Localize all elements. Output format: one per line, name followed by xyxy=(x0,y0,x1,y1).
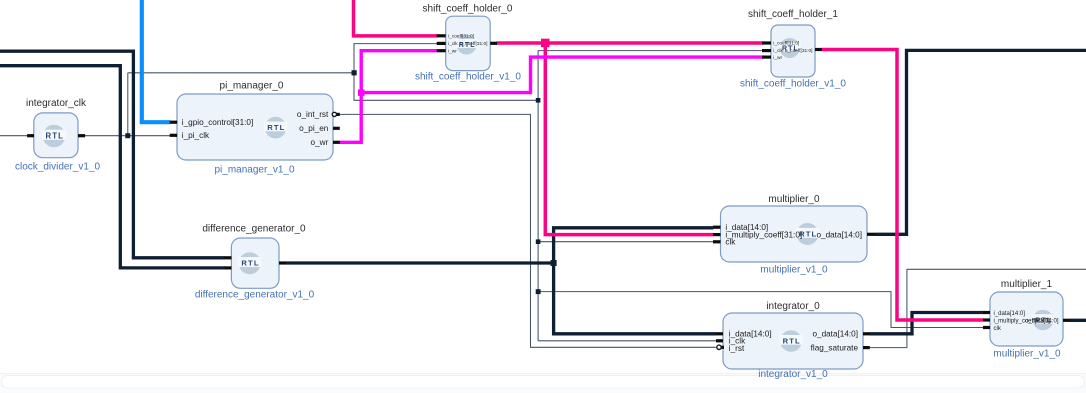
wire net_clk: clock_divider output to pi_manager i_pi_clk xyxy=(85,135,170,137)
svg-text:i_coeff[31:0]: i_coeff[31:0] xyxy=(448,34,474,40)
block shift_coeff_holder_1 xyxy=(740,9,846,89)
wire net_coeff branch down to multiplier_0 i_multiply_coeff xyxy=(545,43,713,235)
svg-text:clk: clk xyxy=(994,326,1002,332)
port text pi_manager i_gpio_control[31:0] xyxy=(182,118,253,127)
port text multiplier_1 o_data[14:0] xyxy=(1025,319,1059,325)
svg-text:shift_coeff_holder_v1_0: shift_coeff_holder_v1_0 xyxy=(740,78,846,89)
wire net_clk branch to integrator_0 i_clk xyxy=(538,340,716,342)
pin shift_coeff_holder_0 i_wr stub xyxy=(437,49,446,52)
wire net_integ_out: integrator_0 o_data to multiplier_1 i_data xyxy=(870,313,984,334)
wire net_wr branch to shift_coeff_holder_1 i_wr xyxy=(361,57,763,93)
wire net_wr: magenta o_wr to shift_coeff_holder_0 i_wr xyxy=(339,51,437,143)
RTL logo shift_coeff_holder_1 xyxy=(779,38,801,58)
pin multiplier_1 i_data stub xyxy=(983,311,990,314)
svg-text:i_coeff[31:0]: i_coeff[31:0] xyxy=(773,41,799,47)
pin multiplier_1 clk stub xyxy=(983,326,990,329)
pin integrator i_data stub xyxy=(716,332,723,335)
RTL logo multiplier_0 xyxy=(796,223,820,245)
svg-text:shift_coeff_holder_1: shift_coeff_holder_1 xyxy=(748,9,838,20)
port text multiplier_0 i_data[14:0] xyxy=(725,223,768,232)
pin integrator_clk output stub xyxy=(78,134,85,137)
wire net_clk horizontal rail y=72.8 xyxy=(128,72,354,74)
svg-text:clk: clk xyxy=(725,238,736,247)
junction net_diff_out xyxy=(551,260,557,266)
svg-text:i_wr: i_wr xyxy=(448,48,457,54)
port text pi_manager i_pi_clk xyxy=(182,131,210,140)
port text multiplier_0 clk xyxy=(725,238,736,247)
port text shift_coeff_holder_0 i_wr xyxy=(448,48,457,54)
block multiplier_1 xyxy=(990,279,1063,360)
port text shift_coeff_holder_0 o_coeff[31:0] xyxy=(460,41,488,47)
wire net_diff_out branch down to integrator_0 i_data xyxy=(554,263,717,334)
pin pi_manager o_int_rst circle marker xyxy=(332,112,340,116)
pin shift_coeff_holder_1 i_wr stub xyxy=(762,56,771,59)
pin integrator flag_saturate stub xyxy=(863,346,870,349)
svg-text:RTL: RTL xyxy=(267,123,285,132)
port text multiplier_1 i_multiply_coeff[31:0] xyxy=(994,319,1051,325)
wire net_clk vertical trunk x=538.1 xyxy=(537,100,539,340)
port text multiplier_0 o_data[14:0] xyxy=(816,230,862,239)
svg-text:i_pi_clk: i_pi_clk xyxy=(182,131,210,140)
pin integrator i_rst circle marker xyxy=(717,345,724,349)
port text integrator i_data[14:0] xyxy=(729,330,772,339)
svg-text:o_int_rst: o_int_rst xyxy=(297,110,329,119)
port text shift_coeff_holder_1 i_coeff[31:0] xyxy=(773,41,799,47)
svg-text:i_data[14:0]: i_data[14:0] xyxy=(994,311,1026,317)
svg-text:RTL: RTL xyxy=(45,132,63,141)
svg-text:i_rst: i_rst xyxy=(729,344,745,353)
svg-text:shift_coeff_holder_0: shift_coeff_holder_0 xyxy=(423,3,513,14)
block difference_generator_0 xyxy=(195,224,315,301)
wire net_gpio: blue wire from top edge to pi_manager i_gpio_control xyxy=(142,0,170,122)
port text multiplier_1 clk xyxy=(994,326,1002,332)
svg-text:integrator_v1_0: integrator_v1_0 xyxy=(758,369,828,380)
svg-text:multiplier_0: multiplier_0 xyxy=(768,194,820,205)
port text integrator i_clk xyxy=(729,337,746,346)
block multiplier_0 xyxy=(721,194,868,276)
junction net_coeff (pink) xyxy=(541,39,550,48)
svg-text:multiplier_v1_0: multiplier_v1_0 xyxy=(760,265,828,276)
junction net_clk at clock output xyxy=(125,133,130,138)
pin shift_coeff_holder_0 i_clk stub xyxy=(437,42,446,45)
wire net_clk_root: clock divider input from left edge xyxy=(0,135,27,137)
wire net_diff_out: difference_generator output trunk xyxy=(286,261,554,264)
pin multiplier_0 o_data stub xyxy=(867,233,876,236)
port text shift_coeff_holder_1 i_clk xyxy=(773,48,783,54)
pin shift_coeff_holder_1 i_coeff stub xyxy=(762,41,771,44)
wire net_mult1_out: multiplier_1 o_data to right edge xyxy=(1070,319,1086,322)
wire net_coeff1: shift_coeff_holder_1 o_coeff to multiplier_1 i_multiply_coeff xyxy=(822,50,984,321)
wire net_mult0_out: multiplier_0 o_data up and to right edge xyxy=(876,50,1086,234)
svg-text:o_data[14:0]: o_data[14:0] xyxy=(816,230,862,239)
wire net_clk branch up to shift_coeff_holder_1 i_clk xyxy=(538,51,764,101)
pin multiplier_0 clk stub xyxy=(713,240,721,243)
port text integrator flag_saturate xyxy=(811,344,859,353)
port text pi_manager o_int_rst xyxy=(297,110,329,119)
port text shift_coeff_holder_1 i_wr xyxy=(773,55,782,61)
wire net_B: left edge to difference_generator port2 (thick dark) xyxy=(0,66,225,268)
port text multiplier_1 i_data[14:0] xyxy=(994,311,1026,317)
svg-text:o_wr: o_wr xyxy=(311,138,329,147)
scrollbar track bottom xyxy=(0,374,1086,393)
pin pi_manager o_wr stub xyxy=(333,141,340,144)
port text multiplier_0 i_multiply_coeff[31:0] xyxy=(725,230,802,239)
junction net_clk rail y=72.8 xyxy=(352,70,357,75)
block pi_manager_0 xyxy=(177,81,333,176)
port text shift_coeff_holder_0 i_coeff[31:0] xyxy=(448,34,474,40)
block integrator_0 xyxy=(723,301,863,380)
wire net_coeff: shift_coeff_holder_0 o_coeff to shift_coeff_holder_1 i_coeff xyxy=(497,41,764,45)
junction net_clk at x=538.1 y=100.3 xyxy=(536,98,541,103)
svg-text:i_clk: i_clk xyxy=(448,41,458,47)
pin multiplier_1 i_multiply_coeff stub xyxy=(983,318,990,321)
RTL logo shift_coeff_holder_0 xyxy=(456,35,478,55)
port text shift_coeff_holder_1 o_coeff[31:0] xyxy=(785,48,813,54)
svg-text:o_coeff[31:0]: o_coeff[31:0] xyxy=(460,41,488,47)
pin difference_generator output stub xyxy=(279,261,286,264)
RTL logo difference_generator xyxy=(238,252,262,274)
wire net_clk branch up to shift_coeff_holder_0 i_clk xyxy=(354,44,437,73)
pin integrator o_data stub xyxy=(863,332,870,335)
svg-text:shift_coeff_holder_v1_0: shift_coeff_holder_v1_0 xyxy=(415,72,521,83)
pin difference_generator port1 stub xyxy=(225,256,232,259)
junction net_clk at y=291.6 branch xyxy=(536,289,541,294)
wire net_clk branch to multiplier_1 clk xyxy=(538,292,983,328)
port text pi_manager o_pi_en xyxy=(299,124,329,133)
wire net_clk branch to multiplier_0 clk xyxy=(538,241,713,243)
svg-text:integrator_clk: integrator_clk xyxy=(26,98,87,109)
svg-text:pi_manager_v1_0: pi_manager_v1_0 xyxy=(214,164,294,175)
svg-text:i_gpio_control[31:0]: i_gpio_control[31:0] xyxy=(182,118,253,127)
pin pi_manager i_pi_clk stub xyxy=(170,134,178,137)
RTL logo integrator_clk xyxy=(42,125,67,148)
pin integrator i_clk stub xyxy=(716,339,723,342)
pin multiplier_0 i_data stub xyxy=(713,226,721,229)
svg-text:i_multiply_coeff[31:0]: i_multiply_coeff[31:0] xyxy=(725,230,802,239)
svg-text:integrator_0: integrator_0 xyxy=(766,301,820,312)
svg-text:o_data[14:0]: o_data[14:0] xyxy=(812,330,858,339)
svg-text:multiplier_v1_0: multiplier_v1_0 xyxy=(993,349,1061,360)
pin pi_manager i_gpio_control stub xyxy=(170,121,178,124)
RTL logo pi_manager xyxy=(264,117,288,139)
svg-text:o_data[14:0]: o_data[14:0] xyxy=(1025,319,1059,325)
pin shift_coeff_holder_1 o_coeff stub xyxy=(815,48,822,51)
pin shift_coeff_holder_1 i_clk stub xyxy=(762,49,771,52)
pin shift_coeff_holder_0 o_coeff stub xyxy=(490,42,497,45)
wire net_coeff0: pink wire from top edge to shift_coeff_holder_0 i_coeff xyxy=(354,0,438,36)
svg-text:difference_generator_v1_0: difference_generator_v1_0 xyxy=(195,289,315,300)
svg-text:difference_generator_0: difference_generator_0 xyxy=(202,224,306,235)
junction net_clk at multiplier_0 clk branch xyxy=(536,239,541,244)
svg-text:RTL: RTL xyxy=(241,259,259,268)
port text pi_manager o_wr xyxy=(311,138,329,147)
port text shift_coeff_holder_0 i_clk xyxy=(448,41,458,47)
svg-text:i_clk: i_clk xyxy=(773,48,783,54)
block integrator_clk (clock_divider_v1_0) xyxy=(15,98,100,173)
wire net_A: left edge to difference_generator port1 (thick dark) xyxy=(0,51,225,258)
block shift_coeff_holder_0 xyxy=(415,3,521,82)
svg-text:o_pi_en: o_pi_en xyxy=(299,124,329,133)
port text integrator o_data[14:0] xyxy=(812,330,858,339)
svg-text:pi_manager_0: pi_manager_0 xyxy=(220,81,284,92)
junction net_wr (magenta) xyxy=(358,89,365,96)
svg-text:flag_saturate: flag_saturate xyxy=(811,344,859,353)
wire net_diff_out branch up to multiplier_0 i_data xyxy=(554,228,714,263)
svg-text:o_coeff[31:0]: o_coeff[31:0] xyxy=(785,48,813,54)
wire net_clk riser from junction to upper rail xyxy=(127,73,129,136)
pin multiplier_0 i_multiply_coeff stub xyxy=(713,233,721,236)
svg-text:RTL: RTL xyxy=(783,336,801,345)
svg-text:multiplier_1: multiplier_1 xyxy=(1001,279,1053,290)
pin multiplier_1 o_data stub xyxy=(1063,319,1070,322)
svg-text:i_wr: i_wr xyxy=(773,55,782,61)
wire net_o_int_rst: pi_manager o_int_rst to integrator_0 i_rst xyxy=(339,114,716,347)
wire net_flag_saturate: integrator_0 flag_saturate to right edge xyxy=(870,269,1086,347)
RTL logo integrator xyxy=(779,330,803,352)
pin shift_coeff_holder_0 i_coeff stub xyxy=(437,34,446,37)
port text integrator i_rst xyxy=(729,344,745,353)
scrollbar thumb xyxy=(2,376,1085,389)
RTL logo multiplier_1 xyxy=(1032,310,1055,331)
wire net_clk down segment to rail y=100.3 xyxy=(354,73,538,101)
svg-text:clock_divider_v1_0: clock_divider_v1_0 xyxy=(15,161,100,172)
pin pi_manager o_pi_en stub xyxy=(333,127,340,130)
pin integrator_clk input stub xyxy=(27,134,34,137)
pin difference_generator port2 stub xyxy=(225,266,232,269)
